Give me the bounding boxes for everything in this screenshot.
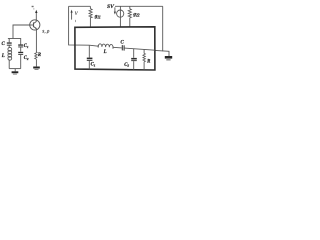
tank wire right: [125, 48, 155, 50]
wire emitter down: [35, 30, 37, 52]
svg-text:C: C: [2, 42, 6, 47]
resistor R (tank) branch: [143, 49, 146, 70]
antenna speck label: [32, 6, 35, 10]
capacitor C1 (left circuit): [18, 44, 23, 47]
capacitor C (tank): [122, 45, 125, 51]
wire left branch upper: [8, 39, 10, 43]
left edge wire down: [69, 6, 90, 45]
svg-text:g22: g22: [132, 11, 139, 17]
transistor Q1 internals: [30, 20, 37, 30]
wire R to ground: [35, 59, 37, 66]
box (thick enclosure): [75, 27, 155, 70]
svg-text:V: V: [75, 12, 79, 17]
wire bottom join: [9, 68, 21, 70]
wire L down: [8, 60, 10, 69]
tank wire left: [89, 45, 98, 46]
wire right branch upper: [20, 39, 22, 45]
right edge wire down: [162, 6, 164, 51]
wire C1 to C2: [20, 47, 22, 51]
svg-text:SV: SV: [107, 4, 115, 10]
svg-text:R: R: [147, 59, 151, 64]
inductor L (left): [8, 47, 12, 60]
svg-text:g11: g11: [94, 14, 101, 20]
svg-text:C1: C1: [91, 63, 96, 68]
capacitor C2 (left circuit): [18, 52, 23, 55]
ground emitter: [33, 67, 40, 70]
resistor R (left circuit): [35, 52, 37, 59]
ground right: [165, 56, 172, 60]
svg-text:C2: C2: [24, 56, 29, 61]
top wire right segment: [115, 5, 163, 7]
equivalent circuit: top wire left segment: [69, 5, 91, 7]
wire C to L: [8, 46, 10, 48]
inductor L (tank): [98, 44, 113, 49]
svg-text:L: L: [103, 50, 107, 55]
svg-text:R: R: [38, 53, 41, 58]
wire base to left and down: [13, 25, 30, 39]
svg-text:s, ρ: s, ρ: [42, 28, 50, 34]
svg-text:L: L: [1, 54, 5, 59]
ground left: [12, 69, 19, 75]
SV arrow down: [114, 7, 116, 14]
tank wire middle: [113, 46, 122, 49]
svg-text:C1: C1: [24, 44, 29, 49]
transistor Q1 circle: [30, 20, 40, 30]
capacitor C1 (tank) branch: [87, 45, 93, 69]
wire bus top: [8, 38, 21, 40]
resistor g22: [128, 6, 131, 27]
capacitor C (left): [7, 42, 12, 45]
speck above box corner: [75, 20, 77, 22]
capacitor C2 (tank) branch: [131, 49, 137, 70]
V arrow: [71, 10, 73, 20]
svg-text:C2: C2: [124, 63, 129, 68]
antenna arrow: [35, 10, 37, 21]
wire C2 down: [20, 55, 22, 69]
wire to right ground: [155, 50, 169, 56]
svg-text:C: C: [121, 41, 125, 46]
current source U1 circle: [117, 6, 124, 27]
resistor g11: [89, 6, 92, 27]
